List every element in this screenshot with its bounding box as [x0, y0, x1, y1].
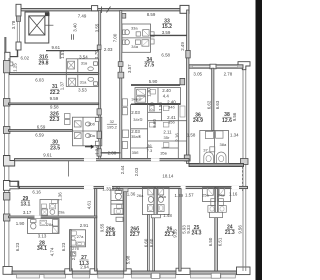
svg-text:6.23: 6.23	[61, 242, 66, 251]
stair west wall piers	[97, 45, 101, 50]
svg-text:2.11: 2.11	[163, 129, 172, 134]
toilet 26a right	[158, 196, 163, 202]
elevator tick line	[45, 24, 54, 26]
sanitary unit 26a left	[142, 187, 169, 214]
left wall pier 1	[4, 61, 10, 73]
washer 29a	[42, 209, 48, 215]
svg-text:4.4: 4.4	[163, 93, 170, 98]
svg-text:1.34: 1.34	[230, 133, 239, 138]
header box 25|24 wall	[210, 212, 223, 217]
double wall 26b|26	[148, 215, 150, 272]
svg-text:7.3: 7.3	[147, 148, 153, 153]
corridor bottom-right wall	[189, 164, 244, 167]
bottom T pier a	[65, 269, 72, 274]
pier	[16, 42, 21, 50]
svg-text:35в: 35в	[160, 150, 167, 155]
thin centre wall 25|24 upper	[215, 187, 218, 214]
svg-text:2.10: 2.10	[149, 102, 154, 111]
washer 24a	[219, 188, 225, 195]
pier at centre wall bottom	[184, 155, 190, 161]
small fixture	[150, 90, 156, 95]
left wall pier 5 L-corner	[3, 181, 18, 191]
door gap corridor bottom wall x231	[232, 186, 240, 189]
right outer T pier top	[238, 62, 250, 70]
shaft box on wall below cluster	[70, 252, 76, 256]
svg-text:1.50: 1.50	[158, 102, 163, 111]
toilet 29a	[50, 210, 55, 215]
svg-text:18.14: 18.14	[162, 173, 174, 178]
svg-text:37: 37	[203, 147, 208, 152]
small box 26v	[117, 205, 122, 209]
svg-text:28а: 28а	[47, 222, 54, 227]
svg-text:27а: 27а	[77, 234, 84, 239]
box 29a	[42, 204, 47, 208]
svg-text:1.36: 1.36	[127, 191, 136, 196]
pier in right top wall	[210, 64, 216, 69]
sinks flanking wall	[211, 199, 216, 206]
svg-text:2.03: 2.03	[131, 110, 140, 115]
svg-text:6.58: 6.58	[161, 53, 170, 58]
svg-text:35а④: 35а④	[131, 134, 142, 139]
svg-text:6.63: 6.63	[215, 100, 220, 109]
washer 26a right	[158, 188, 164, 195]
wall 26|25	[179, 189, 181, 271]
washer 33a	[143, 30, 150, 36]
svg-text:12.6: 12.6	[222, 118, 232, 124]
window sill 7	[221, 274, 236, 278]
svg-text:26а: 26а	[159, 194, 166, 199]
svg-text:9.61: 9.61	[43, 153, 52, 158]
door gap corridor top wall west	[84, 158, 96, 161]
window strip left-top	[16, 21, 18, 42]
svg-text:2.03: 2.03	[134, 167, 139, 176]
pier at top wall east end	[180, 5, 189, 13]
stair east wall piers	[118, 62, 123, 67]
toilet oval 2	[85, 134, 90, 138]
shower box 2	[74, 133, 81, 139]
svg-text:34а: 34а	[131, 44, 138, 49]
svg-text:35б: 35б	[132, 150, 139, 155]
window sill 6	[191, 274, 215, 278]
sanitary cluster 34/35 middle	[131, 104, 187, 158]
fixtures in 34/35 cluster	[149, 106, 154, 111]
small boxes left of block	[65, 114, 71, 119]
washing box	[137, 89, 146, 95]
svg-text:7.00: 7.00	[112, 33, 117, 42]
wall 26v west	[95, 189, 97, 271]
door gap corridor bottom wall x181	[181, 186, 186, 189]
sanitary block 27a/27b	[70, 230, 86, 247]
toilet 34a	[123, 40, 126, 45]
corridor bottom wall	[20, 186, 248, 188]
svg-text:3.13: 3.13	[38, 234, 47, 239]
toilet 33a	[123, 30, 126, 35]
svg-text:29.8: 29.8	[39, 60, 49, 66]
elevator cab with X	[29, 16, 45, 35]
sanitary block 31v/31a	[66, 59, 98, 87]
bottom T pier e	[176, 268, 190, 274]
shower box bottom	[68, 78, 75, 86]
small box near 37	[210, 147, 215, 152]
vent box top	[94, 62, 98, 66]
svg-text:6.23: 6.23	[15, 242, 20, 251]
window sill 3	[98, 274, 124, 278]
svg-text:1.57: 1.57	[185, 192, 194, 197]
box 27b	[71, 240, 76, 245]
svg-text:29а: 29а	[58, 209, 65, 214]
corridor top wall	[15, 159, 190, 161]
wall 34 block bottom	[131, 103, 181, 105]
svg-text:2.49: 2.49	[180, 42, 185, 51]
svg-text:5.98: 5.98	[126, 255, 131, 264]
bottom wall	[12, 271, 248, 274]
divider wall 5.90	[131, 84, 180, 86]
apartment divider wall 3	[9, 130, 73, 132]
top wall	[21, 9, 189, 11]
svg-text:6.62: 6.62	[207, 100, 212, 109]
toilet 26v	[115, 191, 122, 194]
wall 25|24	[215, 218, 218, 271]
small radiator box	[9, 62, 13, 66]
door jambs below top wall	[70, 34, 72, 40]
sanitary block 30b/30a	[73, 117, 102, 146]
tick mark	[101, 7, 103, 14]
toilet oval	[85, 122, 90, 126]
washer 26a left	[148, 188, 154, 195]
svg-text:6.02: 6.02	[21, 56, 30, 61]
svg-text:2.03: 2.03	[104, 47, 113, 52]
svg-text:9.55: 9.55	[100, 223, 105, 232]
toilet 26a left	[148, 196, 153, 202]
vent box on top wall	[92, 6, 98, 11]
svg-text:195.2: 195.2	[107, 124, 118, 129]
sink 26v	[114, 209, 123, 215]
svg-text:2.91: 2.91	[80, 223, 89, 228]
svg-text:2.76: 2.76	[112, 186, 121, 191]
svg-text:9.58: 9.58	[50, 105, 59, 110]
window sill 5b	[73, 274, 90, 278]
thin centre wall 26b|26 upper	[154, 187, 156, 214]
svg-text:3.53: 3.53	[78, 88, 87, 93]
vent box right 34a	[151, 39, 155, 44]
svg-text:1.39: 1.39	[175, 193, 184, 198]
door gap corridor bottom wall x104	[104, 186, 112, 189]
toilet 28a	[31, 220, 37, 223]
svg-text:1.37: 1.37	[60, 81, 65, 90]
svg-text:3.17: 3.17	[23, 210, 32, 215]
washer stack 28a	[53, 220, 59, 227]
svg-text:24а: 24а	[218, 192, 225, 197]
svg-text:2.44: 2.44	[120, 165, 125, 174]
svg-text:27.5: 27.5	[144, 63, 154, 69]
svg-text:31а: 31а	[80, 79, 87, 84]
left wall pier 2	[4, 99, 10, 107]
dark band left upper	[4, 37, 6, 54]
dashed line near right wall	[242, 167, 244, 192]
slash tick	[107, 7, 111, 13]
washer 34a	[142, 40, 149, 47]
wall stub left of 31v	[59, 51, 61, 59]
svg-text:30б: 30б	[88, 122, 95, 127]
svg-text:6.59: 6.59	[35, 132, 44, 137]
sink 29a	[49, 204, 55, 209]
svg-text:6.50: 6.50	[208, 237, 213, 246]
white pier at step	[5, 52, 10, 61]
wall block at top of 26v wall	[123, 188, 128, 191]
svg-text:1.16: 1.16	[229, 192, 238, 197]
tubs flanking wall	[208, 206, 216, 213]
svg-text:5.90: 5.90	[149, 79, 158, 84]
svg-text:3.05: 3.05	[193, 71, 202, 76]
door gap in 29|28 wall	[35, 216, 41, 219]
sanitary block 37/38a right	[200, 131, 229, 164]
left column wall A (under 9.61)	[46, 50, 99, 52]
svg-text:1.51: 1.51	[60, 50, 65, 59]
window in right top wall 1	[193, 66, 211, 68]
svg-text:1.58: 1.58	[187, 133, 196, 138]
sanitary unit 25a	[203, 187, 231, 201]
wall step	[17, 50, 19, 57]
svg-text:21.3: 21.3	[225, 230, 235, 236]
svg-text:6.59: 6.59	[37, 125, 46, 130]
apartment divider wall 2	[9, 103, 99, 105]
small box 34a	[135, 40, 140, 44]
toilet oval top	[88, 67, 94, 71]
svg-text:34г⑤: 34г⑤	[133, 117, 143, 122]
bottom T pier c	[124, 269, 131, 274]
window sill 1	[17, 274, 40, 278]
svg-text:1.25: 1.25	[12, 63, 17, 72]
small pier block	[16, 16, 20, 21]
toilet oval bottom	[88, 77, 94, 81]
svg-text:2.40: 2.40	[162, 88, 171, 93]
svg-text:8.59: 8.59	[147, 12, 156, 17]
left wall pier 3	[4, 127, 10, 134]
window in right top wall 2	[217, 66, 238, 68]
svg-text:2.16: 2.16	[174, 133, 179, 142]
svg-text:26а: 26а	[137, 193, 144, 198]
window sill 5	[160, 274, 176, 278]
svg-text:21.8: 21.8	[105, 232, 115, 238]
boxes right of stair wall	[122, 99, 127, 106]
vent box bottom	[94, 82, 98, 86]
sanitary unit 28a	[28, 219, 60, 234]
shower box	[74, 121, 81, 127]
svg-text:34в②: 34в②	[131, 97, 142, 102]
bottom T pier d	[151, 273, 159, 278]
svg-text:2.38: 2.38	[108, 151, 117, 156]
door gap corridor bottom wall x84	[84, 186, 94, 189]
wall under room 33	[150, 34, 187, 36]
svg-text:22.3: 22.3	[49, 117, 59, 123]
pier on stair east wall top	[122, 13, 126, 18]
svg-text:3.78: 3.78	[11, 20, 16, 29]
door gap corridor top wall	[151, 158, 160, 161]
svg-text:3.40: 3.40	[72, 23, 77, 32]
sink 26a left	[148, 205, 154, 212]
svg-text:1.90: 1.90	[16, 221, 25, 226]
svg-text:9.55: 9.55	[173, 229, 178, 238]
box above 29a	[52, 200, 58, 204]
small box 33a	[136, 32, 140, 36]
svg-text:6.16: 6.16	[32, 190, 41, 195]
svg-text:3.57: 3.57	[127, 64, 132, 73]
svg-text:3.54: 3.54	[79, 54, 88, 59]
bottom T pier b	[90, 269, 97, 274]
tub 27	[76, 242, 84, 246]
svg-text:9.56: 9.56	[232, 112, 237, 121]
pier on that wall	[186, 50, 190, 58]
svg-text:4.74: 4.74	[49, 247, 54, 256]
stair bottom partition	[101, 152, 121, 154]
elevator shaft outer	[25, 12, 49, 43]
shower box top	[68, 61, 75, 69]
svg-text:9.33: 9.33	[186, 225, 191, 234]
left wall pier 7	[4, 214, 10, 221]
svg-text:6.51: 6.51	[218, 237, 223, 246]
corridor west step	[17, 181, 19, 188]
svg-text:3.55: 3.55	[94, 23, 99, 32]
svg-text:1.34: 1.34	[94, 146, 99, 155]
wall between rooms 36 and 38	[212, 68, 214, 130]
washer 27	[71, 231, 77, 235]
door leaf in corridor	[68, 161, 70, 177]
svg-text:23.5: 23.5	[50, 145, 60, 151]
window sill 2	[44, 274, 66, 278]
svg-text:9.56: 9.56	[237, 225, 242, 234]
svg-text:7.49: 7.49	[78, 13, 87, 18]
window sill 4	[132, 274, 151, 278]
svg-text:1.70: 1.70	[94, 50, 99, 59]
svg-text:13.1: 13.1	[20, 201, 30, 207]
svg-text:2.78: 2.78	[224, 71, 233, 76]
sanitary unit 26v	[111, 190, 123, 215]
washer 25a	[207, 188, 213, 195]
svg-text:9.61: 9.61	[52, 45, 61, 50]
svg-text:1.30: 1.30	[146, 88, 151, 97]
sanitary block D (2.40/4.4)	[135, 88, 181, 104]
svg-text:34б: 34б	[168, 104, 175, 109]
bottom T pier f	[211, 273, 220, 278]
svg-text:24.9: 24.9	[193, 118, 203, 124]
svg-text:30а: 30а	[88, 133, 95, 138]
svg-text:1.48: 1.48	[163, 213, 172, 218]
svg-text:25а: 25а	[202, 192, 209, 197]
svg-text:1.36: 1.36	[57, 192, 62, 201]
toilet left	[204, 152, 214, 163]
left outer wall double line	[4, 58, 6, 273]
right border band	[256, 0, 263, 280]
wall between centre block and right rooms	[187, 10, 189, 164]
sanitary block 33a/34a top centre	[122, 24, 151, 52]
svg-text:6.60: 6.60	[144, 238, 149, 247]
toilet right	[216, 152, 226, 163]
elevator door notch	[45, 13, 50, 17]
right outer pier mid	[241, 159, 249, 165]
header box 26v wall	[116, 217, 123, 221]
svg-text:6.60: 6.60	[152, 119, 157, 128]
right section top wall	[189, 65, 243, 68]
svg-text:35б: 35б	[168, 120, 175, 125]
boxes top	[205, 131, 213, 138]
wall 27|28	[70, 230, 72, 271]
sink oval 27	[71, 237, 75, 241]
svg-text:24.3: 24.3	[192, 231, 202, 237]
left wall pier 6	[4, 193, 10, 201]
svg-text:2.72: 2.72	[71, 251, 76, 260]
svg-text:4.61: 4.61	[87, 200, 92, 209]
svg-text:33а: 33а	[131, 26, 138, 31]
right outer wall	[242, 66, 244, 271]
top-left pier	[16, 4, 21, 16]
svg-text:9.59: 9.59	[50, 96, 59, 101]
wall 26v|26b	[124, 189, 126, 271]
vent boxes	[95, 118, 99, 122]
stair west wall	[99, 11, 101, 159]
svg-text:1.33: 1.33	[102, 186, 111, 191]
sink 28a	[40, 220, 47, 225]
svg-text:3.59: 3.59	[162, 30, 171, 35]
svg-text:35г: 35г	[164, 135, 170, 140]
wall 29|28 divider	[9, 216, 97, 218]
apartment divider wall 1	[10, 73, 99, 75]
svg-text:38а: 38а	[220, 142, 227, 147]
svg-text:6.03: 6.03	[35, 78, 44, 83]
svg-text:27б: 27б	[72, 246, 79, 251]
svg-text:31в: 31в	[81, 61, 88, 66]
entry arrow	[85, 145, 93, 148]
sanitary unit 29a	[40, 200, 58, 217]
sink 26a right	[158, 205, 164, 212]
svg-text:22.7: 22.7	[130, 232, 140, 238]
left bottom corner pier	[3, 267, 12, 275]
svg-text:2.94: 2.94	[80, 265, 89, 270]
stair east wall	[120, 11, 122, 159]
left wall pier 4 L-corner	[4, 156, 15, 167]
bottom right corner pier	[237, 267, 251, 275]
svg-text:34.1: 34.1	[37, 246, 47, 252]
header box 26b|26 wall	[151, 215, 160, 218]
pier at its end	[180, 78, 185, 84]
vent box right 33a	[151, 32, 155, 37]
svg-text:6.60: 6.60	[149, 238, 154, 247]
